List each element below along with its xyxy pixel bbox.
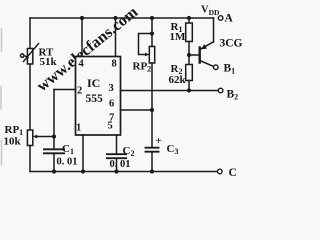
svg-text:3CG: 3CG — [220, 37, 243, 49]
svg-text:A: A — [225, 12, 234, 24]
wire RP2 to pin6 node and C3 — [151, 63, 153, 147]
terminal A — [218, 16, 223, 21]
node C3 ground — [150, 169, 154, 173]
svg-text:555: 555 — [86, 93, 104, 105]
svg-text:2: 2 — [77, 86, 82, 97]
node RP2 wiper tap — [150, 31, 154, 35]
wire pin 6 — [121, 109, 153, 111]
resistor R1 1M riser — [188, 18, 190, 23]
node RP2 on rail — [150, 16, 154, 20]
wire pin8 riser — [115, 18, 117, 57]
svg-text:6: 6 — [109, 98, 114, 109]
node base junction R1 R2 — [187, 53, 191, 57]
node C2 ground — [114, 169, 118, 173]
terminal B2 — [218, 88, 223, 93]
svg-text:10k: 10k — [4, 136, 22, 148]
capacitor C1 plates — [44, 148, 64, 150]
node R1 on rail — [187, 16, 191, 20]
wire R2 to output wire — [188, 81, 190, 91]
node C1 ground — [52, 169, 56, 173]
potentiometer RP2 body — [149, 47, 154, 64]
resistor R1 1M body — [186, 23, 193, 42]
node R2 output — [187, 88, 191, 92]
RP1 wiper arrowhead — [33, 135, 37, 139]
transistor Q1 base bar — [198, 48, 200, 63]
terminal C — [218, 169, 223, 174]
wire RP2 riser from rail — [151, 18, 153, 47]
scan edge artifact left — [0, 28, 3, 166]
thermistor RT diagonal and circle — [24, 44, 39, 62]
thermistor RT 51k body — [27, 49, 32, 65]
svg-text:C: C — [229, 167, 237, 179]
transistor Q1 collector — [201, 61, 214, 67]
svg-text:4: 4 — [79, 58, 85, 69]
wire ground rail — [30, 171, 217, 173]
wire C1 to ground — [53, 154, 55, 172]
node pin1 ground — [81, 169, 85, 173]
svg-text:0. 01: 0. 01 — [57, 157, 78, 168]
svg-text:62k: 62k — [169, 74, 187, 86]
wire pin 5 to C2 — [116, 135, 118, 154]
wire pin 3 output to B2 — [121, 90, 219, 92]
resistor R2 62k body — [186, 65, 193, 81]
svg-text:0. 01: 0. 01 — [110, 159, 131, 170]
wire C2 to ground — [116, 159, 118, 172]
svg-text:1M: 1M — [170, 31, 187, 43]
svg-text:IC: IC — [87, 76, 100, 90]
wire C3 to ground — [151, 153, 153, 172]
node pin8 on rail — [113, 16, 117, 20]
capacitor C3 plates (electrolytic) — [146, 147, 159, 149]
wire pin4 riser — [81, 18, 83, 57]
wire left branch lower (RP1 to ground rail) — [29, 146, 31, 172]
wire R1 to base node — [188, 42, 190, 65]
transistor Q1 emitter arrow (PNP) — [201, 44, 207, 49]
potentiometer RP1 10k body — [27, 130, 32, 146]
svg-text:8: 8 — [112, 58, 117, 69]
svg-text:3: 3 — [109, 83, 114, 94]
node pin4 on rail — [80, 16, 84, 20]
wire left branch middle (RT to RP1) — [29, 64, 31, 130]
capacitor C2 plates — [107, 153, 126, 155]
terminal B1 — [214, 65, 219, 70]
RP2 wiper arrowhead — [145, 53, 149, 57]
node pin6 RP2 C3 — [150, 108, 154, 112]
svg-text:+: + — [156, 135, 162, 147]
transistor Q1 emitter — [201, 42, 214, 49]
op-amp timer IC 555 box U1 — [76, 57, 121, 136]
wire left branch upper (rail to RT) — [29, 18, 31, 49]
svg-text:1: 1 — [76, 122, 81, 133]
watermark www.elecfans.com — [34, 3, 142, 95]
wire RP1 wiper to C1 node — [36, 136, 55, 138]
svg-text:5: 5 — [108, 121, 113, 132]
svg-text:51k: 51k — [40, 56, 58, 68]
wire RP2 wiper loop — [139, 34, 153, 55]
transistor Q1 3CG base wire — [189, 54, 199, 56]
node pin2 wiper C1 — [52, 134, 56, 138]
wire pin 1 to ground — [82, 135, 84, 172]
wire top VDD rail — [30, 17, 214, 19]
wire pin 2 horizontal — [54, 89, 76, 91]
wire pin 2 vertical down to C1 node — [53, 90, 55, 149]
